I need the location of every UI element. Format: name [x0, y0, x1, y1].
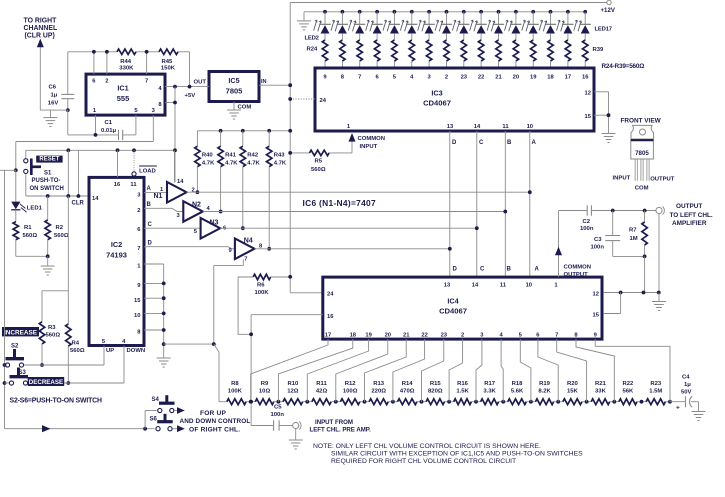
svg-text:R3: R3 — [48, 325, 56, 331]
switch S1 — [24, 150, 41, 196]
svg-text:2: 2 — [105, 79, 108, 85]
svg-text:20: 20 — [513, 75, 519, 81]
wire 555 pin4 to IC5 — [165, 80, 209, 100]
svg-text:R7: R7 — [629, 228, 637, 234]
resistor R35 — [513, 40, 518, 68]
wire left column — [3, 170, 10, 428]
label LED17 — [595, 27, 613, 33]
node output terminal — [656, 203, 713, 293]
svg-text:NOTE: ONLY LEFT CHL VOLUME CON: NOTE: ONLY LEFT CHL VOLUME CONTROL CIRCU… — [313, 443, 541, 450]
svg-text:15: 15 — [585, 114, 592, 120]
LED LED5 — [366, 10, 383, 40]
svg-text:4.7K: 4.7K — [202, 161, 215, 167]
wire 555 pin8 stub — [165, 87, 177, 182]
svg-text:SIMILAR CIRCUIT WITH EXCEPTION: SIMILAR CIRCUIT WITH EXCEPTION OF IC1,IC… — [331, 450, 583, 457]
svg-text:REQUIRED FOR RIGHT CHL VOLUME: REQUIRED FOR RIGHT CHL VOLUME CONTROL CI… — [331, 458, 516, 465]
svg-text:12: 12 — [593, 292, 599, 298]
IC4 top pin numbers — [444, 283, 559, 289]
svg-text:42Ω: 42Ω — [316, 389, 328, 395]
resistor R13 — [363, 381, 393, 405]
svg-text:50V: 50V — [681, 390, 692, 396]
svg-text:ON SWITCH: ON SWITCH — [30, 186, 64, 192]
wire IC4 pin to ladder 13 — [557, 339, 587, 402]
resistor R19 — [529, 381, 558, 405]
wire IC4 pin to ladder 1 — [251, 339, 328, 402]
svg-text:B: B — [507, 267, 512, 273]
svg-text:20: 20 — [385, 333, 391, 339]
svg-text:(CLR UP): (CLR UP) — [25, 32, 55, 39]
svg-text:CD4067: CD4067 — [423, 99, 451, 108]
LED LED7 — [400, 10, 417, 40]
svg-text:10: 10 — [526, 283, 532, 289]
resistor R23 — [640, 381, 670, 405]
resistor R18 — [501, 381, 531, 405]
svg-text:IC3: IC3 — [431, 89, 442, 98]
wire IC4 pin to ladder 5 — [365, 339, 407, 402]
IC U4 CD4067 box — [323, 277, 602, 339]
buffer N4 — [144, 237, 263, 262]
svg-text:R41: R41 — [225, 153, 237, 159]
label RESET — [36, 156, 62, 163]
svg-text:C6: C6 — [49, 85, 57, 91]
wire IC4 pin to ladder 2 — [278, 339, 352, 402]
svg-text:COMMON: COMMON — [564, 264, 592, 270]
svg-text:33K: 33K — [595, 389, 607, 395]
label LED2 — [305, 36, 320, 42]
resistor R11 — [305, 381, 335, 405]
svg-text:15K: 15K — [567, 389, 579, 395]
svg-text:1.5K: 1.5K — [456, 389, 469, 395]
label FOR UP — [180, 410, 251, 433]
svg-text:220Ω: 220Ω — [371, 389, 386, 395]
IC3 pin 24 — [288, 97, 326, 104]
label input from — [310, 419, 372, 434]
LED LED16 — [557, 10, 574, 40]
svg-text:LED1: LED1 — [27, 205, 43, 211]
svg-text:7: 7 — [555, 333, 558, 339]
svg-text:R21: R21 — [595, 381, 607, 387]
svg-text:100n: 100n — [591, 244, 605, 250]
wire +12V rail — [290, 3, 607, 293]
svg-text:R9: R9 — [261, 381, 269, 387]
svg-text:24: 24 — [327, 292, 334, 298]
resistor R5 — [288, 150, 352, 173]
svg-text:0.01μ: 0.01μ — [101, 128, 116, 134]
resistor R37 — [548, 40, 553, 68]
resistor R14 — [391, 381, 422, 405]
svg-text:560Ω: 560Ω — [54, 233, 69, 239]
svg-text:17: 17 — [325, 333, 331, 339]
svg-text:13: 13 — [444, 283, 451, 289]
resistor R39 — [583, 40, 588, 68]
svg-text:12Ω: 12Ω — [287, 389, 299, 395]
svg-text:16V: 16V — [48, 100, 59, 106]
svg-text:18: 18 — [350, 333, 357, 339]
node COMMON OUTPUT arrow — [555, 211, 591, 278]
svg-text:R24: R24 — [307, 47, 319, 53]
svg-text:COM: COM — [635, 186, 649, 192]
svg-text:IC6 (N1-N4)=7407: IC6 (N1-N4)=7407 — [303, 198, 377, 208]
svg-text:CLR: CLR — [72, 201, 85, 207]
LED LED1 — [11, 170, 42, 212]
svg-text:R16: R16 — [457, 381, 469, 387]
svg-text:11: 11 — [130, 182, 137, 188]
switch S4 — [152, 395, 185, 414]
resistor R30 — [426, 40, 431, 68]
svg-text:23: 23 — [441, 333, 448, 339]
LED LED11 — [470, 10, 487, 40]
resistor R12 — [334, 381, 365, 405]
svg-text:DECREASE: DECREASE — [29, 379, 63, 386]
wire 555 pin3 line A — [0, 115, 153, 172]
svg-text:2: 2 — [445, 75, 448, 81]
svg-text:R18: R18 — [512, 381, 524, 387]
svg-text:C: C — [148, 222, 153, 228]
IC U5 7805 box — [209, 72, 259, 102]
wire IC4 pin to ladder 3 — [307, 339, 368, 402]
resistor R34 — [496, 40, 501, 68]
node ladder last junction — [668, 400, 672, 404]
IC3 pin 12 — [585, 91, 609, 97]
svg-text:11: 11 — [502, 124, 509, 130]
svg-text:LEFT CHL. PRE AMP.: LEFT CHL. PRE AMP. — [310, 427, 372, 434]
switch S6 — [150, 414, 185, 432]
IC U2 74193 box — [89, 177, 144, 345]
LED LED12 — [487, 10, 504, 40]
svg-text:N2: N2 — [192, 201, 201, 208]
node input terminal — [293, 422, 301, 441]
svg-text:N3: N3 — [210, 219, 219, 226]
svg-text:330K: 330K — [119, 66, 134, 72]
wire bottom line — [5, 411, 157, 433]
svg-text:R39: R39 — [593, 47, 605, 53]
resistor R27 — [374, 40, 379, 68]
ground LED rail — [297, 21, 311, 30]
resistor R45 — [159, 49, 178, 71]
svg-text:TO RIGHT: TO RIGHT — [24, 17, 58, 24]
svg-text:OUTPUT: OUTPUT — [676, 203, 702, 210]
svg-text:8.2K: 8.2K — [538, 389, 551, 395]
svg-text:INCREASE: INCREASE — [4, 329, 38, 336]
svg-text:7805: 7805 — [226, 87, 243, 96]
svg-text:R22: R22 — [622, 381, 634, 387]
svg-text:11: 11 — [500, 283, 507, 289]
ground output — [652, 302, 666, 311]
svg-text:COMMON: COMMON — [358, 136, 386, 142]
wire net C — [220, 131, 479, 277]
svg-text:18: 18 — [547, 75, 554, 81]
svg-text:+5V: +5V — [185, 93, 196, 99]
resistor R15 — [420, 381, 450, 405]
svg-text:LOAD: LOAD — [139, 169, 156, 175]
label DECREASE — [28, 377, 64, 386]
resistor R7 — [629, 211, 647, 293]
capacitor C6 — [48, 52, 75, 110]
wire IC2 pin16 stub — [117, 150, 119, 177]
svg-text:UP: UP — [106, 348, 114, 354]
svg-text:RESET: RESET — [39, 157, 59, 163]
svg-text:OUTPUT: OUTPUT — [650, 177, 675, 183]
resistor R32 — [461, 40, 466, 68]
wire IC4 pin to ladder 11 — [520, 339, 531, 402]
resistor R38 — [565, 40, 570, 68]
IC3 pin 15 — [585, 92, 611, 134]
svg-text:IN: IN — [261, 79, 267, 85]
resistor R22 — [612, 381, 641, 405]
svg-text:12: 12 — [585, 91, 591, 97]
svg-text:19: 19 — [365, 333, 372, 339]
svg-text:IC1: IC1 — [117, 84, 128, 93]
resistor R24 — [322, 40, 327, 68]
wire IC2 count bus — [144, 264, 166, 358]
wire pin16 input node — [249, 315, 323, 426]
capacitor C2 — [559, 205, 613, 232]
resistor R31 — [444, 40, 449, 68]
svg-text:TO LEFT CHL.: TO LEFT CHL. — [670, 212, 713, 219]
svg-text:14: 14 — [92, 196, 99, 202]
svg-text:7: 7 — [244, 257, 247, 263]
svg-text:LED17: LED17 — [595, 27, 613, 33]
svg-text:3.3K: 3.3K — [483, 389, 496, 395]
IC4 bottom pin numbers — [325, 333, 598, 339]
svg-text:10: 10 — [134, 313, 140, 319]
wire net D — [254, 131, 451, 277]
svg-text:1.5M: 1.5M — [649, 389, 662, 395]
svg-text:CD4067: CD4067 — [439, 307, 467, 316]
svg-text:R24-R39=560Ω: R24-R39=560Ω — [602, 63, 645, 70]
svg-text:23: 23 — [461, 75, 468, 81]
svg-text:R8: R8 — [231, 381, 239, 387]
svg-text:100K: 100K — [255, 290, 270, 296]
node COMMON INPUT arrow — [349, 133, 386, 153]
svg-text:AND DOWN CONTROL: AND DOWN CONTROL — [180, 418, 251, 425]
LED LED9 — [435, 10, 452, 40]
ground IC3 — [602, 134, 616, 143]
label R24 — [307, 47, 319, 53]
svg-text:17: 17 — [565, 75, 571, 81]
svg-text:R17: R17 — [484, 381, 496, 387]
IC3 bottom pin numbers — [347, 124, 533, 130]
wire C6 ground branch — [40, 108, 69, 117]
svg-text:14: 14 — [472, 283, 479, 289]
svg-text:100Ω: 100Ω — [343, 389, 358, 395]
svg-text:10Ω: 10Ω — [259, 389, 271, 395]
svg-text:470Ω: 470Ω — [400, 389, 415, 395]
svg-text:R40: R40 — [202, 153, 214, 159]
capacitor C1 — [101, 115, 136, 140]
buffer N1 — [144, 150, 195, 202]
svg-text:INPUT FROM: INPUT FROM — [315, 419, 353, 426]
svg-text:1M: 1M — [630, 236, 638, 242]
svg-text:N1: N1 — [154, 193, 163, 200]
label S2-S6 — [10, 398, 103, 405]
LED LED6 — [383, 10, 400, 40]
wire net B — [203, 131, 507, 277]
svg-text:560Ω: 560Ω — [23, 233, 38, 239]
svg-text:+12V: +12V — [601, 7, 616, 14]
IC U1 555 box — [86, 74, 165, 115]
svg-text:7805: 7805 — [635, 150, 649, 157]
IC3 top pin numbers — [323, 75, 589, 81]
svg-text:A: A — [535, 267, 540, 273]
svg-text:560Ω: 560Ω — [70, 348, 85, 354]
wire 7407 gnd net — [164, 259, 244, 401]
svg-text:C1: C1 — [105, 120, 113, 126]
svg-text:S2: S2 — [11, 344, 19, 350]
svg-text:OUT: OUT — [194, 80, 207, 86]
resistor R36 — [531, 40, 536, 68]
svg-text:A: A — [147, 186, 152, 192]
label R39 — [593, 47, 605, 53]
svg-text:C: C — [480, 267, 485, 273]
svg-text:IC2: IC2 — [111, 240, 122, 249]
svg-text:7: 7 — [145, 79, 148, 85]
IC4 side pins — [327, 292, 600, 321]
svg-text:R15: R15 — [430, 381, 442, 387]
wire IC4 pin to ladder 12 — [538, 339, 558, 402]
capacitor C4 — [670, 375, 699, 412]
wire IC4 pin to ladder 7 — [422, 339, 444, 402]
label R24-R39 value — [602, 63, 645, 70]
svg-text:S4: S4 — [152, 397, 160, 403]
node +12V terminal — [601, 0, 616, 14]
resistor R8 — [219, 381, 251, 405]
resistor R33 — [478, 40, 483, 68]
svg-text:D: D — [452, 140, 457, 146]
resistor R3 — [39, 291, 60, 367]
svg-text:A: A — [532, 140, 537, 146]
svg-text:56K: 56K — [622, 389, 634, 395]
LED LED3 — [331, 10, 348, 40]
label note — [313, 443, 583, 465]
resistor R1 — [13, 210, 37, 256]
svg-text:14: 14 — [177, 179, 184, 185]
wire 555 top rail — [68, 52, 190, 87]
svg-text:16: 16 — [327, 314, 334, 320]
svg-text:820Ω: 820Ω — [428, 389, 443, 395]
svg-text:R44: R44 — [120, 59, 132, 65]
svg-text:LED2: LED2 — [305, 36, 320, 42]
LED LED14 — [522, 10, 539, 40]
wire IC4 pin to ladder 6 — [393, 339, 425, 402]
svg-text:R4: R4 — [72, 341, 80, 347]
svg-text:CHANNEL: CHANNEL — [24, 25, 58, 32]
resistor R42 — [240, 131, 260, 230]
label S1 — [30, 171, 64, 193]
ground R1R2 — [41, 266, 55, 275]
svg-text:74193: 74193 — [106, 251, 127, 260]
svg-text:1μ: 1μ — [684, 382, 691, 388]
svg-text:24: 24 — [320, 98, 327, 104]
svg-text:C5: C5 — [274, 405, 282, 411]
svg-text:AMPLIFIER: AMPLIFIER — [672, 220, 707, 227]
wire R1 R2 bottom — [16, 254, 50, 266]
svg-text:S6: S6 — [150, 416, 158, 422]
svg-text:21: 21 — [495, 75, 502, 81]
wire net A — [187, 131, 532, 277]
svg-text:R12: R12 — [345, 381, 357, 387]
svg-text:FOR UP: FOR UP — [200, 410, 227, 417]
wire output node — [611, 209, 659, 213]
svg-text:R20: R20 — [567, 381, 579, 387]
svg-text:FRONT VIEW: FRONT VIEW — [621, 118, 662, 125]
ground input — [289, 440, 303, 449]
svg-text:13: 13 — [447, 124, 454, 130]
svg-text:4.7K: 4.7K — [274, 161, 287, 167]
wire pullup rail — [197, 129, 292, 133]
svg-text:R45: R45 — [162, 59, 174, 65]
7805 front view — [613, 118, 675, 192]
wire pin1 C1 net — [68, 110, 119, 137]
svg-text:R5: R5 — [315, 159, 323, 165]
resistor R20 — [556, 381, 586, 405]
wire +5V line B — [26, 148, 177, 152]
wire IC4 pin to ladder 9 — [476, 339, 482, 402]
svg-text:22: 22 — [421, 333, 427, 339]
svg-text:INPUT: INPUT — [360, 144, 378, 150]
resistor R2 — [45, 196, 69, 256]
wire IC4 pin to ladder 14 — [576, 339, 614, 402]
svg-text:D: D — [453, 267, 458, 273]
LED LED10 — [452, 10, 469, 40]
wire IC4 pin12 line — [604, 291, 661, 314]
svg-text:22: 22 — [478, 75, 484, 81]
resistor R4 — [66, 291, 85, 385]
svg-text:B: B — [507, 140, 512, 146]
svg-text:7: 7 — [358, 75, 361, 81]
svg-text:IC4: IC4 — [447, 297, 459, 306]
svg-text:R42: R42 — [247, 153, 259, 159]
label INCREASE — [2, 327, 39, 336]
svg-text:R14: R14 — [402, 381, 414, 387]
svg-text:560Ω: 560Ω — [46, 333, 61, 339]
wire IC4 pin to ladder 8 — [449, 339, 463, 402]
labels DCBA above IC4 — [453, 267, 540, 273]
svg-text:N4: N4 — [244, 237, 253, 244]
resistor R29 — [409, 40, 414, 68]
resistor R28 — [392, 40, 397, 68]
IC2 pin labels — [92, 182, 141, 345]
svg-text:R10: R10 — [287, 381, 299, 387]
LED LED4 — [348, 10, 365, 40]
LED LED8 — [418, 10, 435, 40]
svg-text:S1: S1 — [44, 171, 52, 177]
wire 555 pin stubs — [92, 50, 149, 74]
svg-text:R11: R11 — [316, 381, 327, 387]
svg-text:OF RIGHT CHL.: OF RIGHT CHL. — [189, 426, 240, 433]
LED2 — [314, 10, 331, 40]
svg-text:100K: 100K — [228, 389, 243, 395]
svg-text:15: 15 — [593, 313, 600, 319]
svg-text:R1: R1 — [24, 225, 32, 231]
capacitor C3 — [591, 211, 645, 257]
resistor R26 — [357, 40, 362, 68]
resistor R16 — [447, 381, 476, 405]
svg-text:B: B — [147, 202, 152, 208]
svg-text:2: 2 — [461, 333, 464, 339]
wire IC4 pin to ladder 10 — [501, 339, 503, 402]
svg-text:16: 16 — [114, 182, 121, 188]
svg-text:OUTPUT: OUTPUT — [564, 272, 589, 278]
svg-text:14: 14 — [474, 124, 481, 130]
svg-text:560Ω: 560Ω — [311, 167, 326, 173]
svg-text:IC5: IC5 — [228, 76, 239, 85]
svg-text:555: 555 — [117, 94, 130, 103]
label IC6 note — [303, 198, 377, 208]
buffer N2 — [144, 201, 211, 222]
resistor R41 — [218, 131, 238, 214]
svg-text:C4: C4 — [682, 375, 690, 381]
